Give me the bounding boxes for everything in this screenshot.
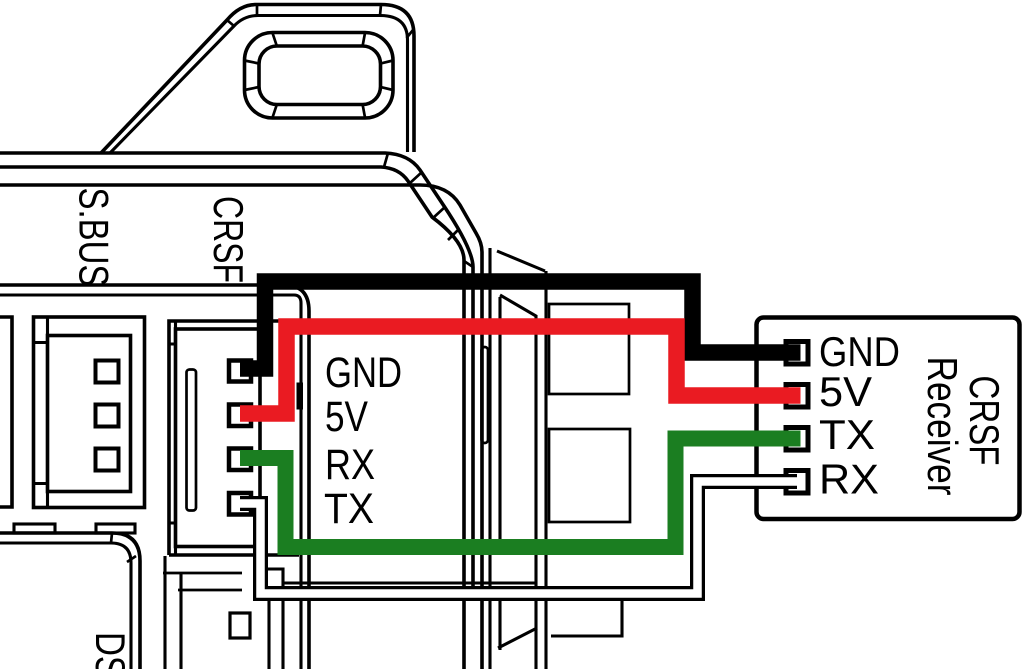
white wire RX core (240, 482, 800, 594)
inner column vertical line c with top diagonal (500, 295, 536, 669)
CRSF pin 1 GND (229, 361, 251, 382)
CRSF connector left wall (169, 321, 176, 555)
receiver pin RX (786, 471, 808, 494)
lower-left step near white wire (258, 569, 536, 669)
svg-text:TX: TX (324, 485, 374, 533)
svg-text:CRSF: CRSF (961, 376, 1008, 466)
inner panel lower rectangle (549, 429, 630, 522)
svg-text:TX: TX (819, 411, 875, 458)
svg-text:5V: 5V (819, 368, 872, 415)
svg-text:S.BUS: S.BUS (71, 188, 118, 287)
svg-text:Receiver: Receiver (919, 357, 966, 496)
CRSF receiver box (757, 318, 1020, 520)
CRSF connector key slot (187, 370, 197, 511)
receiver pin 5V (786, 385, 808, 408)
inner column diagonal to deep wall (497, 251, 546, 669)
white wire RX outline (240, 482, 797, 594)
receiver pin GND (786, 342, 808, 365)
bay face lower line (0, 295, 301, 669)
tab corner tick marks (227, 5, 413, 39)
CRSF pin 4 TX (229, 493, 251, 515)
latch hole outer (245, 33, 394, 119)
latch hole inner (259, 46, 381, 105)
small bottom square (230, 613, 250, 638)
bay bottom corner ticks (111, 533, 136, 562)
S.BUS pin 1 (96, 361, 119, 383)
green wire TX (240, 439, 801, 548)
bay face upper line (turns down at right) (0, 285, 309, 669)
below CRSF connector horizontal steps (163, 573, 242, 590)
svg-text:5V: 5V (325, 393, 368, 441)
foot tab right (96, 524, 135, 533)
foot tab left (14, 524, 55, 533)
svg-text:CRSF: CRSF (205, 196, 252, 283)
S.BUS pin 3 (96, 449, 119, 471)
S.BUS connector outer shell (34, 317, 145, 508)
svg-text:GND: GND (325, 349, 402, 397)
inner column bottom diagonal (498, 628, 537, 648)
CRSF connector outer shell (169, 321, 299, 555)
red wire 5V (240, 327, 801, 414)
svg-text:RX: RX (819, 456, 879, 503)
below CRSF connector vertical a (163, 556, 166, 669)
module housing top edge line outer (0, 153, 473, 601)
inner column slot edge (482, 347, 489, 443)
CRSF pin 3 RX (229, 449, 251, 471)
tab outer outline (101, 5, 414, 154)
S.BUS connector inner housing (48, 336, 131, 492)
module housing top edge line inner (0, 167, 464, 669)
bay bottom edge inner (0, 543, 131, 669)
bay wall small protrusion (297, 383, 304, 410)
inner panel upper rectangle (549, 304, 629, 394)
inner column vertical line b (488, 248, 491, 669)
CRSF connector inner housing (176, 329, 261, 547)
bay bottom edge outer (0, 533, 140, 669)
svg-text:RX: RX (325, 441, 375, 489)
S.BUS connector left wall (34, 317, 48, 508)
latch hole corner ticks (245, 33, 394, 118)
below CRSF connector vertical b (179, 573, 182, 669)
receiver pin TX (786, 428, 808, 451)
inner panel bottom step (551, 600, 622, 636)
left cut-off connector bracket (0, 317, 12, 507)
slope band ticks (384, 153, 473, 267)
tab inner outline (110, 16, 408, 154)
below white wire vertical (267, 601, 270, 669)
black wire GND (240, 282, 801, 369)
CRSF pin 2 5V (229, 405, 251, 427)
S.BUS pin 2 (96, 405, 119, 427)
module housing opening inner edge (0, 185, 482, 669)
svg-text:DS: DS (87, 632, 134, 669)
